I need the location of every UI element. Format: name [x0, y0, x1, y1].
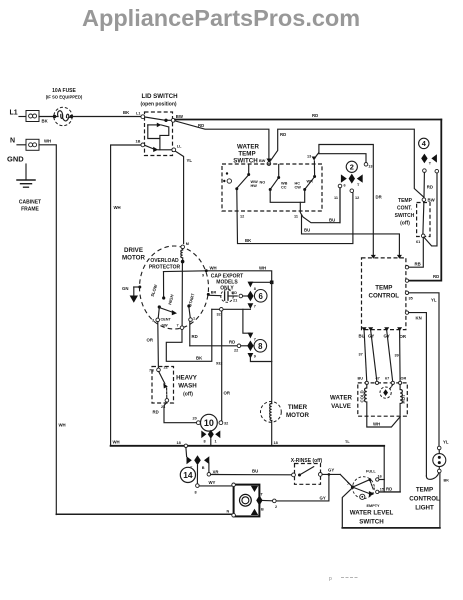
svg-text:932: 932 — [216, 362, 222, 366]
lid switch terminal 1B — [141, 143, 145, 147]
svg-text:PROTECTOR: PROTECTOR — [149, 265, 181, 271]
wire BU to valve — [364, 331, 367, 383]
wire OR cent sw to heavy wash — [157, 322, 160, 369]
svg-text:BU: BU — [329, 218, 335, 223]
svg-text:RD: RD — [198, 123, 204, 128]
svg-text:EMPTY: EMPTY — [367, 504, 381, 508]
junction 13 above WTS — [312, 157, 317, 161]
wire net 13 to timer contact 2 — [319, 153, 366, 163]
water level switch S6 — [347, 470, 384, 509]
svg-text:HEAVY: HEAVY — [176, 375, 198, 382]
svg-text:SWITCH: SWITCH — [359, 519, 384, 526]
wire diamond to BW junction — [423, 172, 425, 197]
svg-text:N: N — [10, 138, 15, 145]
svg-text:TEMP: TEMP — [416, 487, 433, 494]
terminal before diamond — [239, 294, 243, 298]
svg-text:AppliancePartsPros.com: AppliancePartsPros.com — [82, 5, 360, 31]
svg-text:GY: GY — [328, 468, 334, 473]
svg-text:FRAME: FRAME — [21, 207, 39, 213]
svg-text:10: 10 — [204, 418, 214, 428]
svg-text:RD: RD — [232, 291, 238, 295]
svg-text:BU: BU — [358, 377, 364, 381]
svg-text:RD: RD — [427, 185, 433, 190]
wire GY down to buzzer — [276, 474, 329, 501]
svg-text:CONT.: CONT. — [397, 206, 413, 212]
push device — [223, 172, 231, 183]
wire WH valve return — [367, 416, 400, 427]
svg-text:13: 13 — [307, 155, 311, 159]
svg-text:WH: WH — [373, 422, 380, 427]
wire main line down to 15/16 — [383, 446, 385, 492]
wire GY to valve — [371, 331, 377, 383]
fuse F1 10A — [46, 88, 83, 126]
svg-text:RD: RD — [229, 340, 235, 345]
motor terminal 7 — [180, 326, 184, 330]
wire RD water level to valve return — [379, 491, 400, 493]
svg-text:GY: GY — [368, 334, 374, 339]
wire circle2 left terminal down (net 11) — [339, 188, 341, 223]
wire YL lid switch to motor — [175, 151, 183, 243]
svg-text:BK: BK — [444, 479, 450, 483]
svg-text:WY: WY — [209, 480, 216, 485]
svg-text:GY: GY — [384, 334, 390, 339]
svg-text:BU: BU — [304, 228, 310, 233]
terminal below triangle — [435, 169, 439, 173]
buzzer B1 (box) — [232, 483, 264, 517]
svg-text:BW: BW — [428, 198, 436, 203]
temp control (dashed box) — [362, 258, 406, 330]
svg-text:BR: BR — [211, 291, 217, 295]
svg-text:BK: BK — [196, 356, 203, 361]
wire overload to winding bus — [181, 263, 183, 327]
svg-text:NO: NO — [260, 181, 266, 185]
svg-text:BK: BK — [123, 110, 130, 115]
svg-text:GN: GN — [122, 286, 128, 291]
svg-text:HW: HW — [251, 184, 258, 188]
wire WY from diamond down — [196, 465, 198, 484]
svg-text:WATER: WATER — [330, 395, 352, 402]
connector triangle right — [357, 174, 363, 182]
wire to cap connector — [250, 281, 271, 283]
svg-text:14: 14 — [183, 470, 193, 480]
svg-text:RD: RD — [312, 113, 318, 118]
centrifugal switch — [158, 305, 161, 308]
svg-text:39: 39 — [395, 354, 399, 358]
connector stack circle6: triangle above — [248, 282, 254, 288]
wire WY to Q box — [199, 485, 232, 487]
svg-text:1: 1 — [193, 317, 195, 321]
svg-text:WH: WH — [59, 423, 66, 428]
slow winding — [163, 272, 165, 297]
svg-text:SW: SW — [162, 324, 169, 328]
svg-text:BK: BK — [42, 119, 49, 124]
timer motor rail — [271, 282, 273, 403]
entry triangle DR — [371, 255, 376, 259]
svg-text:1: 1 — [215, 440, 217, 444]
svg-text:BW: BW — [259, 159, 266, 163]
circle8 stack: triangle above — [248, 333, 254, 339]
svg-text:(off): (off) — [183, 392, 193, 398]
ground (cabinet frame) — [17, 164, 35, 187]
svg-text:CC: CC — [281, 186, 287, 190]
svg-text:10A FUSE: 10A FUSE — [52, 88, 76, 94]
svg-text:CONTROL: CONTROL — [409, 496, 440, 503]
svg-text:8: 8 — [204, 440, 206, 444]
temp control bottom exit triangles — [362, 327, 367, 331]
svg-text:MOTOR: MOTOR — [286, 412, 309, 419]
motor terminal BR — [207, 293, 210, 296]
neutral rail to buzzer — [56, 513, 233, 515]
wire WH neutral rail (left) — [39, 145, 56, 515]
terminal below diamond — [423, 169, 427, 173]
svg-text:LIGHT: LIGHT — [415, 505, 434, 512]
wire RD diagonal from lid switch — [175, 121, 269, 161]
svg-text:WH: WH — [113, 440, 120, 445]
svg-text:TEMP: TEMP — [375, 285, 392, 292]
svg-text:WH: WH — [259, 266, 266, 271]
svg-text:COLD: COLD — [360, 390, 365, 402]
junction 18 — [184, 444, 187, 447]
svg-text:SWITCH: SWITCH — [395, 213, 415, 219]
terminal 12 stem — [350, 189, 354, 193]
timer motor TM — [261, 402, 310, 423]
timer contact circle 2 — [346, 161, 357, 172]
motor terminal M — [181, 245, 185, 249]
svg-text:1B: 1B — [136, 140, 141, 144]
svg-text:7B: 7B — [149, 369, 154, 373]
timer contact circle 6 — [254, 290, 267, 303]
temp cont switch bottom terminal — [421, 234, 425, 238]
svg-text:L1: L1 — [10, 110, 18, 117]
wire RD heavy wash to circle10 — [164, 402, 197, 423]
svg-text:18: 18 — [274, 441, 278, 445]
connector P1 (L1 plug) — [26, 111, 39, 122]
svg-text:12: 12 — [240, 215, 244, 219]
wire RD to temp cont switch — [270, 129, 424, 197]
wire BK fuse to lid switch — [72, 116, 141, 118]
WTS contact 1 — [235, 165, 258, 191]
junction to Q box — [328, 473, 331, 476]
wire 32 branch down to circle8 stack — [243, 309, 251, 333]
svg-text:2: 2 — [350, 163, 354, 172]
start winding contact — [187, 304, 190, 307]
heavy wash blade — [159, 372, 165, 384]
svg-text:22: 22 — [164, 366, 168, 370]
svg-text:B: B — [202, 466, 205, 470]
timer contact circle 8 — [254, 340, 267, 353]
svg-text:TEMP: TEMP — [238, 151, 255, 158]
wire BU to x-rinse — [211, 474, 292, 476]
svg-text:HOT: HOT — [401, 394, 406, 403]
svg-text:CW: CW — [295, 186, 302, 190]
svg-text:GY: GY — [320, 496, 326, 501]
timer contact circle 10 — [193, 414, 229, 431]
svg-text:WATER: WATER — [237, 144, 259, 151]
wire circle8 stack to timer rail — [250, 359, 271, 362]
svg-text:OR: OR — [400, 334, 407, 339]
svg-text:CABINET: CABINET — [19, 200, 41, 206]
wire net 11 down — [300, 188, 340, 223]
svg-text:8: 8 — [254, 287, 256, 291]
svg-text:11: 11 — [334, 196, 338, 200]
svg-text:p: p — [329, 576, 332, 582]
svg-text:6: 6 — [344, 184, 346, 188]
svg-text:22: 22 — [234, 349, 238, 353]
svg-text:20: 20 — [193, 417, 197, 421]
wire OR vertical to circle10 — [221, 311, 223, 421]
svg-text:35: 35 — [409, 297, 413, 301]
svg-text:15: 15 — [380, 488, 384, 492]
wire KN curve to lamp — [426, 473, 438, 479]
motor terminal WH out — [205, 269, 208, 272]
svg-text:GND: GND — [7, 155, 24, 164]
wire N to connector — [17, 144, 26, 146]
lid switch linkage — [148, 123, 169, 150]
svg-text:WR: WR — [307, 180, 314, 184]
svg-text:RD: RD — [192, 334, 198, 339]
svg-text:RB: RB — [415, 262, 421, 267]
wire net 32 horizontal — [212, 308, 251, 310]
wire net 11 to temp control — [302, 215, 400, 256]
svg-text:11: 11 — [294, 215, 298, 219]
svg-text:21: 21 — [233, 299, 237, 303]
svg-text:(off): (off) — [400, 221, 410, 227]
svg-text:VALVE: VALVE — [331, 403, 351, 410]
svg-text:7: 7 — [254, 305, 256, 309]
svg-text:8: 8 — [195, 491, 197, 495]
lid switch terminal LL — [172, 148, 176, 152]
wire OR to valve — [399, 331, 402, 383]
svg-text:N: N — [227, 510, 230, 514]
svg-text:6: 6 — [259, 292, 264, 301]
connector P2 (N plug) — [26, 139, 39, 150]
svg-text:OR: OR — [401, 377, 407, 381]
svg-text:7: 7 — [177, 324, 179, 328]
connector cluster at 14 — [185, 448, 188, 457]
svg-text:47: 47 — [376, 377, 380, 381]
svg-text:TL: TL — [345, 440, 350, 444]
junction BW at water temp switch — [266, 159, 271, 163]
terminal left of circle2 — [338, 184, 342, 188]
svg-text:13: 13 — [368, 165, 372, 169]
svg-text:XR: XR — [213, 470, 220, 475]
svg-text:OVERLOAD: OVERLOAD — [150, 258, 179, 264]
WTS contact 2 — [260, 165, 288, 192]
wire GY2 to valve — [387, 331, 393, 383]
svg-text:DR: DR — [376, 195, 383, 200]
wire WH motor to timer rail — [208, 271, 272, 283]
connector triangle left — [341, 174, 347, 182]
svg-text:61: 61 — [416, 240, 420, 244]
terminal 3 on wire — [220, 308, 224, 312]
valve hot solenoid — [400, 385, 406, 417]
svg-text:8: 8 — [258, 342, 263, 351]
svg-text:KN: KN — [416, 316, 422, 321]
svg-text:L1: L1 — [136, 112, 140, 116]
svg-text:BU: BU — [252, 469, 258, 474]
svg-text:32: 32 — [224, 422, 228, 426]
svg-text:YL: YL — [431, 298, 437, 303]
wire net 12 (BK) — [237, 190, 353, 243]
svg-text:67: 67 — [385, 377, 389, 381]
svg-text:OR: OR — [147, 338, 154, 343]
svg-text:WH: WH — [210, 266, 217, 271]
triangle below — [248, 353, 254, 359]
wire pivot loop to lamp return — [342, 488, 352, 528]
triangle below — [248, 303, 254, 309]
connector diamond circle2 — [349, 174, 355, 184]
terminal 13 — [364, 163, 368, 167]
svg-text:(open position): (open position) — [140, 102, 176, 108]
svg-text:WH: WH — [44, 139, 51, 144]
lid switch terminal BW — [171, 118, 175, 122]
svg-text:CONTROL: CONTROL — [369, 293, 400, 300]
svg-text:WH: WH — [114, 205, 121, 210]
wire RD from motor start terminal — [189, 321, 191, 345]
lid switch terminal L1 — [141, 115, 145, 119]
wire KN temp control to light return — [409, 313, 427, 476]
svg-text:LID SWITCH: LID SWITCH — [141, 93, 178, 100]
connector cluster below circle10 — [208, 430, 214, 439]
svg-text:CENT: CENT — [161, 318, 172, 322]
wire GY diagonal to pivot — [340, 474, 352, 486]
svg-text:(IF SO EQUIPPED): (IF SO EQUIPPED) — [46, 95, 83, 100]
wire L1 to connector — [19, 116, 26, 118]
svg-text:9: 9 — [202, 274, 204, 278]
temp control light DS1 — [433, 440, 449, 483]
lid switch blade bottom — [145, 145, 154, 149]
wire BK up from heavy wash loop — [166, 309, 212, 361]
wire XR branch — [208, 463, 210, 473]
svg-text:RD: RD — [280, 132, 286, 137]
connector diamond circle6 — [247, 291, 253, 302]
temp control right entries — [405, 266, 408, 269]
svg-text:32: 32 — [217, 313, 221, 317]
wire valve return down to water level sw — [399, 417, 401, 492]
capacitor C1 (export models) — [210, 290, 237, 303]
svg-text:18: 18 — [177, 441, 181, 445]
svg-text:WASH: WASH — [178, 383, 197, 390]
svg-text:7: 7 — [347, 482, 349, 486]
temp cont switch blade — [423, 202, 424, 235]
motor ground GN — [122, 286, 141, 303]
connector diamond circle8 — [247, 341, 253, 352]
lid switch blade top — [145, 117, 165, 120]
svg-text:12: 12 — [355, 196, 359, 200]
wire GY x-rinse to water level — [322, 473, 340, 475]
svg-text:RD: RD — [153, 410, 159, 415]
svg-text:M: M — [186, 242, 189, 246]
svg-text:TIMER: TIMER — [288, 404, 308, 411]
wire WH 1B to main line — [111, 145, 141, 446]
svg-text:WATER LEVEL: WATER LEVEL — [350, 510, 394, 517]
wire connector to fuse — [39, 116, 54, 118]
connector triangle right — [431, 154, 437, 162]
svg-text:RD: RD — [386, 487, 392, 492]
svg-text:B: B — [261, 508, 264, 512]
svg-text:OR: OR — [224, 391, 231, 396]
svg-text:BK: BK — [245, 238, 252, 243]
svg-text:TEMP: TEMP — [398, 198, 413, 204]
valve center device — [380, 385, 393, 399]
svg-text:DRIVE: DRIVE — [124, 247, 143, 254]
WTS contact 3 — [295, 161, 317, 191]
wire YL temp control to light — [409, 293, 439, 446]
svg-text:37: 37 — [359, 353, 363, 357]
entry triangle net12 — [397, 255, 402, 259]
wire RB temp cont sw to temp control — [408, 238, 424, 268]
valve cold solenoid — [360, 385, 367, 417]
svg-text:RD: RD — [433, 274, 439, 279]
connector diamond circle4 — [421, 154, 427, 164]
svg-text:16: 16 — [378, 475, 382, 479]
wire RD start winding to circle8 — [190, 345, 237, 347]
wire WTS internal bottom — [270, 191, 305, 203]
wire H1 BW top rail — [175, 119, 441, 121]
svg-text:3: 3 — [152, 319, 154, 323]
svg-text:FULL: FULL — [366, 470, 376, 474]
motor internal bus — [164, 270, 207, 273]
timer contact circle 4 — [419, 138, 429, 148]
wire to circle4 right leg — [424, 173, 437, 246]
junction square — [270, 281, 274, 285]
svg-text:LL: LL — [177, 145, 182, 149]
wire H1 right drop — [408, 120, 442, 281]
overload protector coil — [181, 249, 183, 260]
svg-text:BW: BW — [176, 114, 184, 119]
timer contact circle 14 — [180, 467, 195, 482]
svg-text:MOTOR: MOTOR — [122, 255, 145, 262]
main line (neutral bus) — [111, 445, 385, 447]
temp cont switch terminal BW — [422, 198, 426, 202]
svg-text:YL: YL — [443, 440, 449, 445]
svg-text:YL: YL — [187, 158, 193, 163]
wire net 13 to DR drop — [314, 145, 373, 257]
svg-text:9: 9 — [254, 355, 256, 359]
svg-text:BU: BU — [359, 334, 365, 339]
svg-text:2: 2 — [275, 505, 277, 509]
